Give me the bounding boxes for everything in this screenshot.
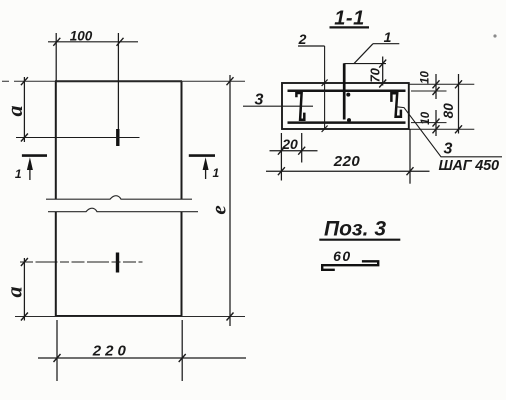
svg-text:20: 20 [281, 136, 298, 152]
stirrup 3 left [296, 93, 304, 120]
leader 2 tick bottom [322, 126, 328, 133]
dim 20 ticks [278, 147, 305, 155]
top edge extension line [2, 80, 245, 82]
anchor top extension [344, 63, 386, 65]
bottom edge extension line [15, 316, 245, 318]
dim 220 ext left [56, 320, 58, 381]
rebar R2 axis line [20, 261, 143, 263]
svg-text:ШАГ 450: ШАГ 450 [439, 158, 500, 174]
scan speck [493, 34, 496, 37]
svg-text:1: 1 [384, 29, 392, 45]
dim 220 ext right [181, 320, 183, 381]
leader 2 tick top [322, 80, 328, 87]
svg-text:220: 220 [333, 153, 361, 170]
svg-text:100: 100 [70, 29, 93, 44]
dim a lower line [23, 258, 25, 321]
dim a upper tick top [21, 77, 28, 85]
section title underline [330, 26, 370, 28]
rebar R1 axis line [16, 137, 140, 139]
dim 20 line [270, 150, 318, 152]
dim a upper tick bottom [21, 134, 28, 142]
dim 80 line [458, 74, 460, 134]
svg-text:10: 10 [419, 71, 431, 84]
anchor bar 1 [343, 63, 346, 119]
dim 70 tick bottom [379, 80, 386, 88]
dim 70 line [382, 57, 384, 86]
break line lower [48, 208, 198, 212]
dim a upper line [23, 77, 25, 142]
dim 100 ext left [55, 33, 57, 81]
dim 100 line [48, 41, 138, 43]
dim a lower tick top [21, 258, 28, 266]
section mark 1 right bar [189, 154, 215, 157]
svg-text:2: 2 [298, 31, 307, 47]
dim 20 ext right [301, 133, 303, 163]
dim 10 ticks top [433, 80, 440, 95]
svg-text:e: e [207, 205, 231, 214]
plan slab outline upper part [55, 81, 182, 199]
svg-text:80: 80 [441, 103, 456, 119]
leader of label 2 vertical [324, 46, 326, 129]
svg-text:70: 70 [368, 67, 383, 82]
dim 10-10 line [435, 74, 437, 136]
dim 220 tick left [54, 354, 61, 362]
rebar R2 mark [116, 253, 119, 273]
dim e tick top [227, 77, 234, 85]
dim e tick bottom [227, 313, 234, 321]
right ext top edge [409, 83, 474, 85]
section mark 1 left bar [22, 154, 47, 157]
label 2 underline [298, 45, 325, 47]
svg-text:60: 60 [333, 248, 352, 264]
dim 100 tick right [117, 38, 124, 46]
dim 220 section ext right [409, 129, 411, 183]
label 3 right leader [396, 107, 503, 157]
label 1 underline [373, 43, 399, 45]
anchor bar dot top [346, 93, 350, 97]
dim 220 line [38, 357, 246, 359]
dim 80 ticks [455, 80, 462, 133]
svg-text:Поз. 3: Поз. 3 [324, 218, 386, 241]
svg-text:1: 1 [212, 166, 219, 180]
dim 220 tick right [179, 354, 186, 362]
svg-text:a: a [1, 287, 26, 298]
stirrup 3 right [391, 93, 401, 117]
svg-text:10: 10 [420, 111, 432, 124]
detail title underline [319, 239, 400, 241]
dim 10 ticks bottom [433, 119, 440, 134]
rebar R1 mark [116, 129, 119, 146]
label 3 left leader [243, 105, 313, 107]
anchor bar dot bottom [347, 118, 351, 122]
concrete section rect [282, 83, 409, 129]
dim 220 section line [266, 170, 430, 172]
dim a lower tick bottom [21, 313, 28, 321]
right ext bottom mesh [411, 122, 447, 124]
bottom mesh bar 2 [288, 121, 406, 124]
label 1 leader diagonal [354, 44, 373, 64]
svg-text:220: 220 [92, 343, 130, 360]
right ext top mesh [411, 90, 447, 92]
top mesh bar 2 [288, 90, 406, 93]
detail Z-bar item 3 [322, 261, 378, 270]
section mark 1 right arrow [205, 162, 207, 179]
dim 20 ext left [280, 133, 282, 181]
dim 70 tick top [379, 60, 386, 68]
svg-text:1-1: 1-1 [334, 8, 364, 30]
section mark 1 left arrow [29, 162, 31, 180]
dim 220 section ticks [278, 167, 414, 175]
break line upper [46, 196, 192, 200]
svg-text:1: 1 [15, 167, 22, 181]
svg-text:a: a [2, 106, 27, 117]
right ext bottom edge [409, 128, 474, 130]
plan slab outline lower part [55, 212, 182, 316]
svg-text:3: 3 [444, 141, 453, 158]
dim 100 ext right / rebar leader [117, 33, 119, 130]
dim 100 tick left [53, 38, 60, 46]
dim e line [229, 75, 231, 326]
